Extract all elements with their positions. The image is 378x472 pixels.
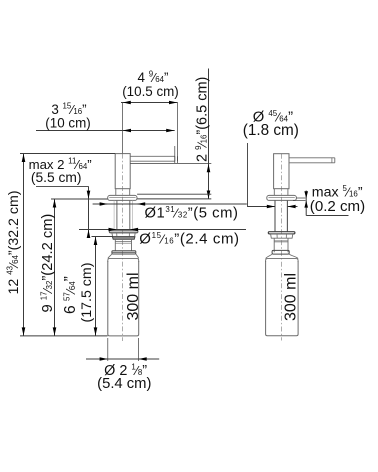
dimension shaft diameter 2.4 cm (15/16 in) [79,229,246,231]
left nut lower dark band [112,237,134,240]
svg-text:(5.5 cm): (5.5 cm) [31,170,82,185]
svg-text:6 57⁄64”: 6 57⁄64” [62,276,79,314]
right bottle neck [274,238,288,252]
dimension 17.5 cm (6 57/64 in) bottle height [92,236,114,238]
right bell rim band [272,250,289,254]
right spout tip cap [331,158,333,163]
left bell rim band [112,251,136,254]
svg-text:(0.2 cm): (0.2 cm) [310,198,365,215]
svg-text:Ø15⁄16”(2.4 cm): Ø15⁄16”(2.4 cm) [139,231,239,248]
pump top reference line [20,153,115,155]
svg-text:(1.8 cm): (1.8 cm) [243,122,299,139]
left bell flare and bottle shoulder [108,254,139,258]
left mounting nut [112,233,135,237]
svg-text:(10 cm): (10 cm) [45,116,90,131]
right threaded shaft [275,201,287,233]
svg-text:9 17⁄32”(24.2 cm): 9 17⁄32”(24.2 cm) [40,214,57,313]
dimension 6.5 cm (2 9/16 in) spout height [208,69,210,199]
centerline extension above pump head [121,102,123,153]
left threaded shaft [117,201,130,230]
left view centerline (dash-dot) [121,154,123,341]
dimension 10 cm (3 15/16 in) spout reach [36,130,175,132]
right bell flare and bottle shoulder [266,254,299,259]
bottom reference base line [20,335,108,337]
right bottle body [266,261,299,336]
left collar inner line [109,196,135,198]
svg-text:(17.5 cm): (17.5 cm) [79,263,95,323]
left piston stem [116,189,130,196]
collar top plane reference line [137,193,211,195]
svg-text:300 ml: 300 ml [125,272,142,320]
svg-text:2 9⁄16”(6.5 cm): 2 9⁄16”(6.5 cm) [194,77,211,162]
dimension max 0.2 cm (5/16 in) gap [297,197,306,199]
left pump body [115,154,130,189]
left flange plate [109,230,138,233]
left bottle neck [115,239,131,250]
right flange plate [268,232,295,234]
spout underside reference line [130,162,211,164]
svg-text:(10.5 cm): (10.5 cm) [122,84,179,99]
left spout tip cap [177,156,179,161]
svg-text:4 9⁄64”: 4 9⁄64” [138,70,169,86]
svg-text:300 ml: 300 ml [283,273,300,321]
dimension bottle diameter 5.4 cm (2 1/8 in) [107,338,109,361]
left collar escutcheon [108,195,137,200]
svg-text:(5.4 cm): (5.4 cm) [97,376,151,392]
right collar escutcheon [267,195,297,200]
dimension collar diameter 5 cm (1 31/32 in) [93,203,247,205]
left bottle body [108,261,139,336]
svg-text:Ø131⁄32”(5 cm): Ø131⁄32”(5 cm) [145,205,239,222]
right mounting nut [271,234,293,238]
max 5.5 label shelf line [36,185,89,187]
dimension 10.5 cm (4 9/64 in) spout reach overall [121,102,178,104]
countertop reference line left segment [51,198,108,200]
right view centerline (dash-dot) [280,154,282,341]
right pump body [274,154,289,189]
left spout bar [130,156,175,161]
dimension 32.2 cm (12 43/64 in) overall height [23,154,25,336]
dimension 24.2 cm (9 17/32 in) height below deck [54,199,56,336]
svg-text:12 43⁄64”(32.2 cm): 12 43⁄64”(32.2 cm) [5,190,22,294]
right spout bar [289,158,335,163]
countertop reference line right segment [137,198,211,200]
right collar inner line [268,196,294,198]
right piston stem [274,189,288,196]
